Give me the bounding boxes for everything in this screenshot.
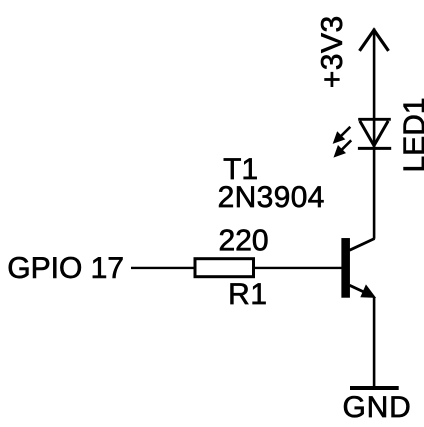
- wire R1 to transistor base: [255, 267, 342, 269]
- label LED1 (rotated): [404, 99, 424, 170]
- label T1: [224, 158, 257, 179]
- LED1 emission arrow upper: [340, 127, 351, 138]
- label R1: [231, 283, 266, 304]
- label 2N3904: [219, 186, 323, 207]
- transistor T1 emitter lead: [350, 285, 366, 293]
- LED1 anode bar: [358, 118, 391, 121]
- power symbol +3V3 arrow: [360, 30, 389, 51]
- resistor R1: [195, 259, 254, 277]
- wire GPIO 17 to R1: [131, 267, 194, 269]
- LED1 triangle: [360, 121, 388, 146]
- transistor T1 base bar: [342, 238, 350, 297]
- LED1 cathode bar: [358, 147, 391, 150]
- LED1 emission arrow lower: [340, 140, 351, 151]
- label +3V3 (rotated): [321, 17, 342, 87]
- label GND: [344, 396, 409, 417]
- label 220: [220, 229, 267, 250]
- transistor T1 collector lead: [350, 239, 375, 251]
- wire +3V3 rail down through LED to collector: [373, 29, 376, 239]
- transistor T1 emitter arrowhead: [361, 285, 376, 298]
- label GPIO 17: [9, 257, 123, 278]
- wire emitter to GND: [373, 297, 376, 388]
- ground symbol bar: [350, 386, 399, 390]
